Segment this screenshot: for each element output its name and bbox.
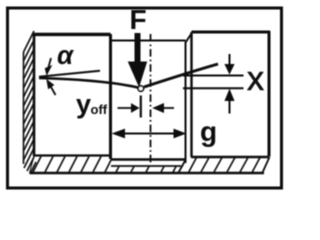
ground strip right end slant (263, 157, 270, 173)
g dimension double-headed arrow (121, 133, 177, 135)
right block 3D side-left edge (185, 42, 187, 163)
center dash-dot line (150, 34, 152, 163)
y_off dimension right-pointing arrow (118, 107, 133, 109)
ground hatch resume slant under right block (189, 158, 197, 173)
svg-text:off: off (91, 102, 108, 117)
ground strip top edge (left segment) (33, 154, 111, 156)
force F arrowhead (129, 62, 147, 86)
ground hatch (right segment) (201, 158, 260, 173)
beam vertex circle (138, 86, 143, 91)
svg-text:x: x (247, 60, 264, 98)
x dimension up arrow (229, 100, 231, 114)
x dimension upper line (183, 75, 244, 77)
left block (34, 34, 111, 156)
ground hatch (left segment) (33, 157, 111, 173)
alpha reference line (upper wedge line) (39, 71, 100, 77)
right block right edge (268, 31, 271, 157)
svg-text:g: g (200, 116, 217, 147)
alpha angle up arrow (51, 87, 56, 95)
x dimension down arrow (229, 54, 231, 65)
svg-text:y: y (76, 89, 91, 119)
x dimension lower line (183, 87, 244, 89)
right block front-left edge (190, 32, 192, 157)
force F arrow bar (135, 33, 141, 63)
svg-text:α: α (57, 40, 75, 70)
groove floor right end slant (179, 160, 186, 173)
y_off dimension left-pointing arrow (162, 107, 174, 109)
groove floor back edge (111, 158, 186, 161)
deflected beam right segment (144, 64, 218, 87)
groove hatch (short diagonals below floor front edge) (116, 167, 176, 173)
right block top-left bevel (186, 32, 193, 43)
wall hatch strip (left wall of left block) (24, 31, 37, 172)
ground strip top edge (right segment) / right block bottom edge (191, 156, 269, 158)
ground strip left end slant (30, 156, 35, 173)
left block right edge (109, 34, 112, 159)
deflected beam left segment (39, 78, 138, 88)
alpha angle down arrow (49, 58, 52, 67)
outer border frame (8, 8, 282, 188)
ground strip bottom edge (30, 172, 265, 175)
svg-text:F: F (130, 4, 147, 35)
right block top edge (192, 31, 271, 34)
y_off tick mark below vertex (140, 96, 142, 118)
undeflected wire line across the gap (111, 40, 186, 42)
groove floor front edge (111, 165, 181, 167)
